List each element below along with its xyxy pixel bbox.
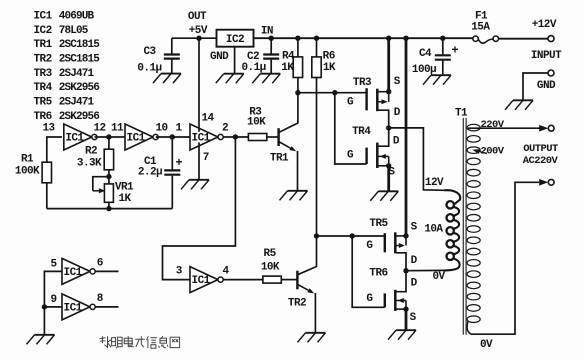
svg-text:D: D (393, 136, 400, 148)
svg-text:78L05: 78L05 (59, 25, 89, 37)
wire gate B out to gate C in (156, 136, 190, 138)
svg-text:GND: GND (210, 51, 229, 63)
svg-text:12V: 12V (425, 177, 444, 189)
wire R5 to TR2 base (281, 279, 296, 281)
node C4 junction (440, 36, 445, 41)
wire R4 bottom (297, 78, 299, 93)
transistor TR6 source stub (397, 308, 407, 310)
wire input pin13 (47, 137, 62, 162)
svg-text:S: S (411, 222, 418, 234)
transistor TR2 collector (297, 236, 316, 275)
svg-text:G: G (366, 240, 373, 252)
svg-text:OUT: OUT (188, 11, 207, 23)
wire gate E output stub (95, 270, 118, 272)
resistor R4 (293, 57, 302, 78)
resistor R1 (42, 162, 51, 183)
wire gate F output stub (95, 306, 118, 308)
svg-text:IC2: IC2 (226, 34, 244, 46)
wire 200V tap arrow (479, 152, 487, 154)
resistor R2 (104, 149, 113, 170)
svg-text:13: 13 (42, 122, 55, 134)
svg-text:2SJ471: 2SJ471 (59, 97, 95, 109)
svg-text:2SC1815: 2SC1815 (59, 39, 101, 51)
resistor R5 (263, 276, 281, 283)
op-amp inverter gate IC1e (pins 5-6) (62, 258, 90, 284)
node TR5-TR6 drain junction (403, 268, 408, 273)
node TR3 source rail junction (386, 36, 391, 41)
ground TR4 source (378, 190, 398, 192)
wire TR5-TR6 drains to primary 0V tap (406, 269, 445, 271)
svg-text:0.1μ: 0.1μ (137, 62, 161, 74)
svg-text:IC1: IC1 (64, 267, 83, 279)
transistor TR5 channel bar (394, 232, 397, 253)
op-amp inverter gate IC1a (pins 13-12) (64, 124, 92, 150)
svg-text:AC220V: AC220V (523, 155, 559, 167)
svg-text:10A: 10A (424, 224, 443, 236)
wire TR5 source feed from rail (405, 38, 408, 236)
node TR3-TR4 drain junction (386, 125, 391, 130)
svg-text:TR3: TR3 (34, 68, 53, 80)
transistor TR3 gate bar (365, 88, 367, 110)
svg-text:G: G (347, 97, 354, 109)
terminal +12V input (548, 36, 554, 42)
svg-text:5: 5 (50, 258, 57, 270)
svg-text:15A: 15A (471, 21, 490, 33)
svg-text:10K: 10K (261, 261, 280, 273)
wire GND terminal to ground (523, 73, 548, 100)
wire TR3-TR4 drains to primary 12V tap (389, 128, 445, 190)
svg-text:TR5: TR5 (34, 97, 53, 109)
svg-text:2SK2956: 2SK2956 (59, 82, 100, 94)
transistor TR3 source stub (379, 91, 389, 93)
capacitor C4 electrolytic (435, 38, 451, 75)
svg-text:6: 6 (97, 257, 103, 269)
wire unused gate inputs tie (44, 271, 62, 334)
node TR6 source-body junction (403, 306, 408, 311)
svg-text:220V: 220V (480, 119, 504, 131)
op-amp inverter gate IC1b (pins 11-10) (125, 124, 153, 150)
svg-text:D: D (394, 107, 401, 119)
svg-text:10: 10 (155, 122, 167, 134)
wire VR1 wiper arrow (93, 190, 99, 192)
capacitor C3 (164, 38, 180, 73)
node TR3 source-body junction (386, 89, 391, 94)
wire R2 to VR1 (108, 170, 110, 184)
op-amp inverter gate IC1d (pins 3-4) (190, 267, 218, 293)
svg-text:TR6: TR6 (369, 267, 387, 279)
svg-text:TR4: TR4 (34, 82, 53, 94)
svg-text:TR6: TR6 (34, 111, 52, 123)
ground below C4 (431, 74, 451, 76)
svg-text:C3: C3 (143, 46, 156, 58)
svg-text:2SC1815: 2SC1815 (59, 53, 101, 65)
svg-text:3: 3 (176, 266, 183, 278)
wire TR6 source to ground (405, 309, 408, 330)
svg-text:T1: T1 (455, 108, 468, 120)
inductor T1 primary winding (447, 201, 454, 208)
svg-text:+: + (451, 44, 458, 58)
svg-text:3.3K: 3.3K (77, 158, 102, 170)
ground TR1 emitter (288, 190, 308, 192)
transistor TR1 collector (279, 93, 298, 133)
resistor R6 (312, 57, 321, 78)
transistor TR6 gate bar (384, 293, 386, 307)
node TR3-TR4 gate branch junction (332, 90, 337, 95)
svg-text:TR4: TR4 (352, 126, 371, 138)
wire TR3-TR4 gate bus (298, 92, 367, 94)
svg-text:IC1: IC1 (192, 275, 211, 287)
node R6-TR2 junction (314, 233, 319, 238)
svg-text:TR3: TR3 (353, 77, 372, 89)
ground TR2 emitter (306, 332, 326, 334)
transistor TR3 channel bar (376, 89, 379, 112)
svg-text:4: 4 (222, 266, 229, 278)
node TR5 source-body junction (403, 233, 408, 238)
transistor TR5 gate bar (384, 233, 386, 252)
svg-text:1: 1 (175, 122, 182, 134)
svg-text:C4: C4 (419, 48, 432, 60)
node VR1 bottom junction (106, 206, 111, 211)
transistor TR4 drain stub (379, 128, 389, 146)
terminal AC output neutral (548, 179, 554, 185)
wire secondary 0V to output terminal (471, 182, 540, 334)
capacitor C2 (263, 38, 279, 73)
svg-text:R4: R4 (282, 51, 295, 63)
svg-text:0V: 0V (432, 271, 445, 283)
wire TR6 gate branch L (352, 236, 385, 307)
ground below C2 (260, 73, 280, 75)
transistor TR5 source stub (397, 235, 407, 237)
svg-text:D: D (411, 278, 418, 290)
wire R2 top (108, 137, 110, 149)
transistor TR5 drain stub (397, 253, 407, 271)
svg-text:IC1: IC1 (64, 303, 83, 315)
transistor TR4 source stub (379, 165, 389, 167)
resistor R3 (248, 134, 266, 141)
ground input GND terminal (513, 99, 533, 101)
svg-text:IC1: IC1 (34, 10, 53, 22)
svg-text:OUTPUT: OUTPUT (523, 143, 558, 155)
fuse F1 (473, 36, 499, 43)
svg-text:R1: R1 (21, 154, 34, 166)
parts list (IC1..TR6 designators and values) (34, 10, 101, 122)
svg-text:INPUT: INPUT (531, 50, 562, 62)
wire R6 top (316, 38, 318, 57)
wire gate F input stub (44, 306, 62, 308)
svg-text:TR2: TR2 (34, 53, 52, 65)
wire pin14 power line from +5V node down through IC1 to pin7 ground (198, 38, 200, 132)
transistor TR6 channel bar (394, 290, 397, 311)
svg-text:VR1: VR1 (115, 182, 134, 194)
wire R1 bottom to feedback rail (46, 183, 48, 209)
wire R4 top (297, 38, 299, 57)
svg-text:+12V: +12V (532, 19, 557, 31)
node pin10-pin1 junction with C1 (170, 134, 175, 139)
transistor TR2 base bar (296, 271, 298, 290)
transistor TR2 emitter with arrow (297, 284, 308, 290)
svg-text:10K: 10K (247, 117, 266, 129)
svg-text:G: G (347, 149, 354, 161)
wire secondary 220V tap to output terminal (468, 127, 539, 129)
op-amp IC2 regulator box (217, 30, 254, 47)
node +5V junction (196, 36, 201, 41)
node TR5-TR6 gate branch junction (350, 233, 355, 238)
wire TR4 source to ground (387, 166, 390, 192)
wire R6 bottom long drop to TR5-TR6 gate node (316, 78, 318, 237)
svg-text:1K: 1K (118, 193, 131, 205)
svg-text:+: + (175, 156, 182, 170)
node R6 top junction (314, 36, 319, 41)
wire IC2 IN to +12V rail (254, 37, 473, 39)
svg-text:14: 14 (201, 112, 214, 124)
node R4-TR1 junction (295, 90, 300, 95)
wire +5V rail (C3 to IC2 OUT pin) (172, 37, 217, 39)
wire node2 down-branch to gate D input (163, 137, 236, 280)
wire gate C out to node (223, 136, 248, 138)
op-amp inverter gate IC1f (pins 9-8) (62, 294, 90, 320)
node unused inputs junction (42, 304, 47, 309)
wire TR5-TR6 gate bus (317, 235, 385, 237)
wire TR4 gate branch L (335, 93, 367, 164)
wire feedback bottom rail (47, 208, 173, 210)
svg-text:100K: 100K (15, 166, 40, 178)
node TR4 source-body junction (386, 163, 391, 168)
transistor TR3 body arrow (379, 101, 382, 103)
transistor TR6 drain stub (397, 271, 407, 292)
svg-text:R5: R5 (264, 248, 277, 260)
transistor TR5 body arrow (397, 245, 399, 247)
node output arrow top (539, 125, 548, 132)
op-amp inverter gate IC1c (pins 1-2) (190, 124, 218, 150)
svg-text:IC2: IC2 (34, 25, 52, 37)
wire IC2 GND pin (234, 47, 236, 74)
svg-text:12: 12 (93, 122, 105, 134)
transformer T1 core (462, 118, 464, 335)
svg-text:8: 8 (97, 293, 104, 305)
svg-text:TR5: TR5 (369, 218, 388, 230)
node output arrow bottom (539, 179, 548, 186)
inductor T1 secondary winding (467, 124, 480, 131)
wire R3 to TR1 base (267, 136, 278, 138)
node TR5 source rail junction (403, 36, 408, 41)
wire fuse to +12V input terminal (499, 38, 549, 40)
svg-text:4069UB: 4069UB (59, 10, 95, 22)
transistor TR4 channel bar (376, 143, 379, 168)
node R2-VR1 junction (106, 174, 111, 179)
transistor TR1 base bar (277, 128, 279, 146)
transistor TR1 emitter with arrow (279, 142, 291, 149)
svg-text:2.2μ: 2.2μ (138, 167, 162, 179)
wire TR3 source feed from rail (387, 38, 390, 91)
svg-text:C2: C2 (247, 51, 259, 63)
svg-text:IC1: IC1 (192, 133, 211, 145)
svg-text:9: 9 (50, 294, 56, 306)
node IN junction (269, 36, 274, 41)
transistor TR4 gate bar (365, 148, 367, 164)
svg-text:11: 11 (111, 122, 124, 134)
ground below C3 (161, 73, 181, 75)
transistor TR6 body arrow (404, 300, 406, 302)
svg-text:2SJ471: 2SJ471 (59, 68, 95, 80)
svg-text:TR1: TR1 (270, 153, 289, 165)
wire gate D out to R5 (223, 279, 263, 281)
svg-text:R2: R2 (85, 146, 97, 158)
watermark chinese text (100, 336, 180, 348)
node pin2 branch junction (233, 134, 238, 139)
capacitor C1 electrolytic (164, 170, 180, 208)
svg-text:D: D (411, 255, 418, 267)
svg-text:7: 7 (203, 152, 209, 164)
svg-text:S: S (410, 312, 417, 324)
wire gate A out to gate B in (95, 136, 126, 138)
svg-text:GND: GND (537, 80, 556, 92)
svg-text:2: 2 (222, 122, 228, 134)
wire C1 top (171, 137, 173, 170)
svg-text:G: G (366, 293, 373, 305)
svg-text:1K: 1K (281, 62, 294, 74)
svg-text:TR2: TR2 (288, 297, 306, 309)
terminal GND input (548, 70, 554, 76)
node pin12 junction (106, 134, 111, 139)
svg-text:0.1μ: 0.1μ (241, 62, 265, 74)
ground unused gate inputs (35, 334, 55, 336)
transistor TR4 body arrow (386, 155, 388, 157)
svg-text:IC1: IC1 (127, 133, 146, 145)
wire VR1 bottom (108, 202, 110, 208)
svg-text:0V: 0V (480, 339, 493, 351)
svg-text:+5V: +5V (189, 25, 208, 37)
svg-text:R6: R6 (323, 51, 335, 63)
ground below IC2 (224, 73, 244, 75)
svg-text:1K: 1K (323, 62, 336, 74)
transistor TR3 drain stub (379, 110, 389, 128)
svg-text:IC1: IC1 (65, 133, 84, 145)
node R4 top junction (295, 36, 300, 41)
svg-text:200V: 200V (480, 146, 504, 158)
ground IC1 pin7 (189, 179, 209, 181)
terminal AC output live (548, 125, 554, 131)
svg-text:S: S (394, 76, 401, 88)
wire secondary bottom hook (467, 322, 470, 334)
svg-text:2SK2956: 2SK2956 (59, 111, 100, 123)
wire VR1 wiper loop (93, 177, 109, 191)
ground TR6 source (396, 329, 416, 331)
svg-text:TR1: TR1 (34, 39, 53, 51)
potentiometer VR1 (104, 184, 113, 202)
